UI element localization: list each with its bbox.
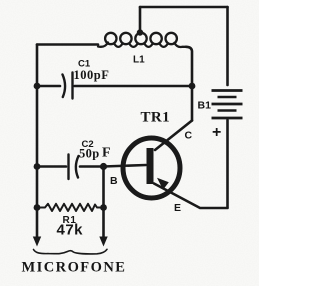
- wire: C2 row right segment to base: [80, 165, 146, 167]
- arrowhead: mic right: [99, 237, 107, 247]
- emitter arrowhead (PNP, points to base): [157, 178, 169, 190]
- svg-text:L1: L1: [133, 55, 145, 66]
- wire: C2 row left segment: [37, 165, 66, 168]
- node dot: coil tap: [137, 29, 143, 35]
- svg-text:50p: 50p: [79, 147, 100, 161]
- node dot: C2 left: [34, 163, 41, 170]
- svg-text:TR1: TR1: [141, 110, 171, 126]
- svg-text:100pF: 100pF: [74, 68, 110, 82]
- resistor R1 zigzag: [40, 204, 101, 211]
- wire: left rail: [36, 45, 39, 209]
- svg-text:B1: B1: [198, 100, 212, 112]
- transistor TR1 circle: [123, 138, 180, 198]
- wire: base node down to resistor: [102, 167, 105, 208]
- svg-text:F: F: [102, 146, 111, 161]
- node dot: collector/C1 junction: [189, 83, 196, 90]
- wire: top horizontal: [140, 6, 228, 9]
- wire: C1 row right segment to collector node: [75, 85, 193, 88]
- arrow line: mic left lead: [36, 208, 39, 237]
- arrow line: mic right lead: [102, 208, 105, 237]
- wire: coil right end to collector drop corner: [186, 47, 192, 121]
- svg-text:+: +: [212, 124, 221, 141]
- svg-text:E: E: [174, 202, 181, 214]
- capacitor C1 plates: [63, 73, 73, 99]
- svg-text:47k: 47k: [57, 222, 84, 239]
- wire: coil tap vertical: [139, 7, 142, 32]
- wire: collector diagonal into transistor: [155, 121, 192, 151]
- svg-text:MICROFONE: MICROFONE: [22, 260, 127, 276]
- wire: battery top lead: [226, 7, 229, 85]
- wire: top-left horizontal to coil: [37, 43, 98, 46]
- capacitor C2 plates: [69, 155, 79, 180]
- node dot: R1 left: [34, 204, 41, 211]
- node dot: R1 right: [100, 204, 107, 211]
- battery B1 plates: [212, 91, 243, 119]
- wire: battery bottom lead: [226, 120, 229, 208]
- node dot: C1 left: [34, 83, 41, 90]
- underbrace: [34, 249, 108, 254]
- transistor base bar: [147, 148, 154, 184]
- wire: emitter run to battery minus: [154, 184, 228, 209]
- arrowhead: mic left: [33, 237, 41, 247]
- svg-text:B: B: [110, 175, 118, 187]
- svg-text:C: C: [185, 130, 193, 142]
- inductor L1: [98, 33, 186, 47]
- node dot: base junction: [100, 163, 107, 170]
- wire: C1 row left segment: [37, 85, 60, 88]
